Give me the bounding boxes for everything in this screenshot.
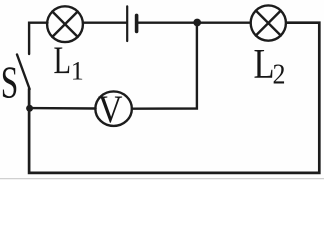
svg-text:S: S xyxy=(1,58,19,108)
svg-text:L: L xyxy=(254,42,275,88)
svg-text:V: V xyxy=(98,88,123,131)
svg-text:2: 2 xyxy=(273,58,286,90)
svg-text:L: L xyxy=(54,39,72,82)
svg-text:1: 1 xyxy=(71,57,84,86)
